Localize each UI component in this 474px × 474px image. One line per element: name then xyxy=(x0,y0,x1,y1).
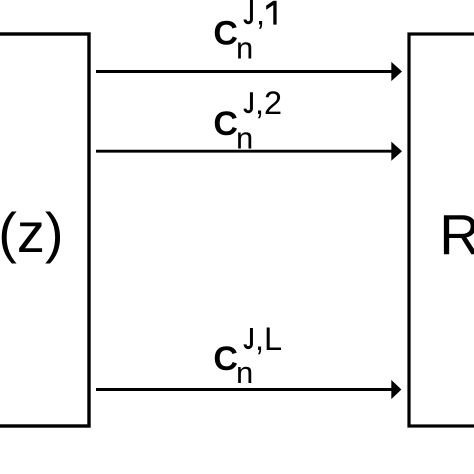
arrowhead 1 xyxy=(391,62,402,81)
svg-text:,L: ,L xyxy=(255,321,282,357)
svg-text:n: n xyxy=(236,121,253,156)
svg-text:,: , xyxy=(256,0,265,31)
svg-text:(z): (z) xyxy=(0,201,63,264)
arrowhead 3 xyxy=(391,380,401,399)
wire arrow 2 shaft xyxy=(96,150,392,153)
label C_n^J,2 xyxy=(213,85,282,156)
arrowhead 2 xyxy=(391,142,402,161)
svg-text:n: n xyxy=(236,355,253,390)
svg-text:n: n xyxy=(236,31,253,66)
svg-text:C: C xyxy=(213,15,238,53)
svg-text:C: C xyxy=(213,105,238,143)
block H(z) (left, cut off at image edge) xyxy=(0,34,89,426)
label C_n^J,1 xyxy=(213,0,276,65)
label C_n^J,L xyxy=(213,321,282,390)
wire arrow 3 shaft xyxy=(96,388,392,391)
svg-text:C: C xyxy=(213,340,238,378)
wire arrow 1 shaft xyxy=(96,70,392,73)
svg-text:,2: ,2 xyxy=(255,85,282,121)
svg-text:R: R xyxy=(439,203,474,266)
block R (right, cut off at image edge) xyxy=(409,34,474,426)
